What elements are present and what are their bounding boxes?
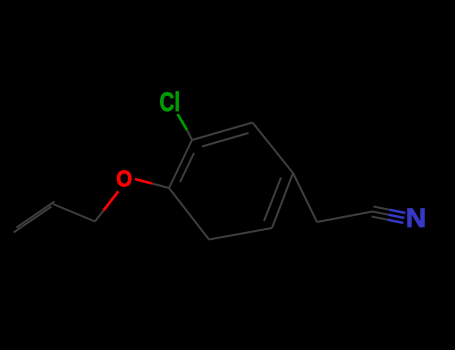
wire ring edge V3-V4 bbox=[272, 173, 293, 228]
benzene ring bbox=[14, 123, 390, 240]
svg-text:N: N bbox=[406, 203, 427, 233]
wire ring edge V4-V5 bbox=[209, 228, 272, 240]
wire allyl Ca-Cb bbox=[53, 204, 95, 222]
wire ring edge V1-V2 bbox=[192, 123, 253, 141]
wire ring inner double V6-V1 bbox=[180, 153, 194, 182]
oxygen O allyl bond (red part) bbox=[103, 191, 118, 210]
wire nitrile triple gray halves bbox=[374, 207, 390, 210]
chlorine Cl bond (green part) bbox=[178, 114, 188, 130]
wire ring inner double V3-V4 bbox=[264, 178, 281, 222]
wire Cl bond gray tail bbox=[187, 130, 192, 140]
wire ring edge V6-V1 bbox=[169, 140, 192, 188]
svg-text:Cl: Cl bbox=[160, 87, 181, 117]
wire chain V3-Cd bbox=[293, 173, 317, 222]
wire ring edge V5-V6 bbox=[169, 188, 209, 240]
wire ring edge V2-V3 bbox=[253, 123, 294, 174]
wire allyl double Cb-Cc bbox=[16, 202, 54, 228]
wire chain Cd-Ce bbox=[317, 212, 373, 223]
svg-text:O: O bbox=[116, 165, 132, 191]
nitrile triple bond (blue halves) bbox=[387, 210, 405, 223]
wire O ring bond gray half bbox=[152, 184, 169, 189]
oxygen O ring bond (red part) bbox=[135, 179, 152, 184]
wire ring inner double V1-V2 bbox=[202, 133, 249, 147]
wire O allyl bond gray half bbox=[95, 211, 103, 222]
